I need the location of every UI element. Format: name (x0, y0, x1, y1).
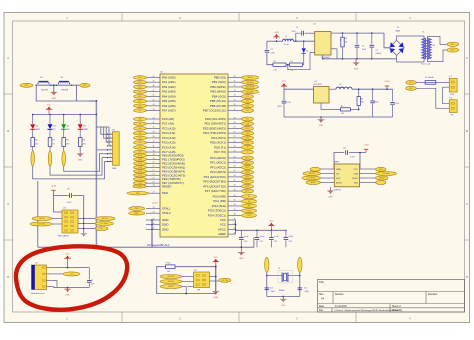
svg-text:21: 21 (234, 131, 236, 133)
svg-text:32: 32 (234, 185, 236, 187)
svg-text:SW-SS: SW-SS (379, 178, 384, 180)
svg-text:50: 50 (153, 76, 155, 78)
svg-text:31: 31 (153, 223, 155, 225)
net label oval below R5 (31, 151, 35, 166)
net label oval below R7 (48, 151, 52, 166)
svg-text:CSN: CSN (353, 173, 358, 175)
row2 input wire (284, 87, 314, 90)
svg-text:R5: R5 (341, 106, 343, 108)
svg-text:Revision: Revision (428, 293, 438, 296)
svg-text:PF6 (ADC6/TDO): PF6 (ADC6/TDO) (203, 184, 226, 188)
svg-text:38: 38 (234, 214, 236, 216)
svg-text:PA0 (AD0): PA0 (AD0) (162, 76, 176, 80)
crystal bottom rail wire (267, 295, 300, 297)
svg-text:1K0: 1K0 (66, 143, 69, 145)
svg-text:D13 MOSI: D13 MOSI (246, 87, 254, 89)
svg-text:AC2: AC2 (409, 87, 412, 90)
net label oval SW-SS enc (32, 217, 52, 221)
net label oval XTAL1 vert (298, 257, 302, 272)
nrf ground (330, 187, 332, 191)
svg-text:R1: R1 (274, 61, 276, 63)
nrf right pin stubs (360, 168, 376, 170)
svg-text:VCC: VCC (282, 81, 287, 83)
svg-text:PD1 (SDA/INT1): PD1 (SDA/INT1) (205, 122, 226, 126)
svg-text:P1: P1 (450, 76, 452, 78)
svg-text:+3.3V: +3.3V (51, 185, 57, 187)
svg-text:MISO: MISO (352, 178, 358, 180)
led loop wire 2 (50, 158, 113, 176)
svg-text:R9: R9 (83, 140, 85, 142)
svg-text:INT4: INT4 (379, 169, 383, 171)
svg-text:PB5 (OC1A): PB5 (OC1A) (210, 99, 226, 103)
enc left pin stubs (56, 218, 62, 220)
svg-text:NRF24: NRF24 (334, 190, 341, 192)
svg-text:D: D (466, 275, 468, 279)
svg-text:RFC3: RFC3 (278, 106, 282, 108)
svg-text:SW-PB: SW-PB (61, 90, 68, 92)
LED D6 PWR (79, 115, 81, 125)
net label oval nrf4 left (306, 181, 320, 185)
net label oval nrf IRQ right (376, 167, 386, 171)
power +5V for LEDs (48, 110, 50, 114)
svg-text:OC1: OC1 (246, 101, 249, 103)
svg-text:PB3 (MISO): PB3 (MISO) (210, 90, 226, 94)
capacitor C4 1000uF (371, 33, 373, 44)
svg-text:INT6: INT6 (25, 85, 29, 87)
svg-text:16: 16 (234, 104, 236, 106)
svg-text:26: 26 (234, 156, 236, 158)
net label oval SW-SCK isp (160, 280, 182, 284)
capacitor C14 22pF (265, 287, 270, 289)
svg-text:29: 29 (153, 212, 155, 214)
radio pin3 wire (54, 281, 58, 288)
svg-text:NRF1: NRF1 (334, 162, 340, 164)
vcc top rail wire (236, 229, 288, 231)
svg-text:T1: T1 (422, 32, 424, 34)
svg-text:PG4 (TOSC1): PG4 (TOSC1) (208, 213, 226, 217)
svg-text:36: 36 (234, 204, 236, 206)
svg-text:SW-SS: SW-SS (247, 77, 253, 79)
long gnd rail wire (38, 246, 254, 248)
capacitor C12 0.1uF (270, 230, 272, 237)
svg-text:20: 20 (153, 162, 155, 164)
svg-text:+3.3V: +3.3V (363, 144, 369, 146)
power +12V row1 (276, 37, 278, 39)
resistor R3 10k (342, 33, 344, 37)
svg-text:14: 14 (234, 95, 236, 97)
svg-text:PG3 (TOSC2): PG3 (TOSC2) (208, 209, 226, 213)
svg-text:PD3 (TXD1/INT3): PD3 (TXD1/INT3) (203, 131, 226, 135)
svg-text:GND: GND (354, 68, 359, 70)
net label oval D13 MOSI enc (30, 222, 52, 226)
ground decoupling rail (240, 247, 242, 252)
svg-text:4.7uF: 4.7uF (287, 102, 291, 104)
enc ground (80, 234, 87, 237)
svg-text:13.02.2018: 13.02.2018 (335, 306, 347, 308)
capacitor C10 0.1uF (240, 230, 242, 237)
svg-text:C10: C10 (244, 241, 247, 243)
svg-text:49: 49 (153, 81, 155, 83)
svg-text:+3.3V: +3.3V (384, 81, 390, 83)
diode bottom wire (303, 59, 305, 65)
connector P4 pins (109, 133, 113, 135)
svg-text:PG2 (ALE): PG2 (ALE) (212, 204, 226, 208)
mcu right net-label ovals wide SPI (242, 76, 259, 80)
svg-text:PB7 (OC2/OC1C): PB7 (OC2/OC1C) (203, 109, 226, 113)
capacitor C10b 10uF (372, 89, 374, 100)
mcu gnd bus wire (151, 220, 153, 247)
svg-text:39: 39 (153, 131, 155, 133)
ground below switches (51, 92, 58, 95)
net label oval SW-MOSI isp (160, 275, 182, 279)
svg-text:R7: R7 (52, 140, 54, 142)
regulator U1 MC34063 body (315, 32, 331, 56)
svg-text:C11: C11 (260, 241, 263, 243)
svg-text:C6: C6 (67, 189, 69, 191)
svg-text:VCC: VCC (65, 254, 70, 256)
svg-text:C2: C2 (271, 49, 273, 51)
mcu right net-label ovals PB rest (242, 94, 254, 98)
LED D2 ERR (32, 115, 34, 125)
power +5V row2 (283, 86, 285, 88)
svg-text:XCK1: XCK1 (246, 142, 250, 144)
svg-text:RESET: RESET (137, 186, 143, 188)
svg-text:VCC: VCC (269, 221, 274, 223)
svg-text:10: 10 (234, 76, 236, 78)
mcu left net-label ovals (134, 76, 147, 80)
fuse F1 (416, 81, 425, 83)
wire below resistor (63, 147, 65, 152)
svg-text:RadioReceiver: RadioReceiver (31, 292, 45, 295)
power +5V radio (67, 259, 69, 262)
svg-text:C4: C4 (376, 50, 378, 52)
frame zone ticks left (4, 93, 13, 95)
power +3V3 nrf (365, 149, 367, 152)
module NRF1 body (334, 164, 359, 187)
isp wire box (157, 267, 216, 294)
svg-text:SW-PB: SW-PB (41, 90, 48, 92)
svg-text:PC4 (A12): PC4 (A12) (162, 136, 176, 140)
svg-text:C3: C3 (362, 46, 364, 48)
net label oval XTAL2 vert (265, 257, 269, 272)
svg-text:PF7 (ADC7/TDI): PF7 (ADC7/TDI) (205, 189, 226, 193)
svg-text:28: 28 (153, 207, 155, 209)
svg-text:C1: C1 (296, 27, 298, 29)
svg-text:22: 22 (153, 170, 155, 172)
svg-text:OC0: OC0 (246, 96, 249, 98)
svg-text:PF1 (ADC1): PF1 (ADC1) (210, 161, 226, 165)
row1 left loop wire (266, 41, 268, 49)
p3 right wires (210, 276, 216, 278)
svg-text:D12 MISO: D12 MISO (100, 223, 109, 225)
svg-text:PD0 (SCL/INT0): PD0 (SCL/INT0) (205, 117, 226, 121)
svg-text:GND: GND (336, 169, 341, 171)
svg-text:TXD1: TXD1 (246, 133, 250, 135)
svg-text:PA6 (AD6): PA6 (AD6) (162, 104, 176, 108)
svg-text:RXD0: RXD0 (138, 155, 142, 157)
svg-text:41: 41 (153, 122, 155, 124)
svg-text:T2: T2 (247, 152, 249, 154)
capacitor C9 4.7uF (282, 100, 287, 102)
ground below R9 PWR led (79, 147, 81, 154)
svg-text:25: 25 (234, 150, 236, 152)
svg-text:PC6 (A14): PC6 (A14) (162, 145, 176, 149)
svg-text:4.7uF: 4.7uF (395, 103, 399, 105)
svg-text:B: B (466, 129, 468, 133)
svg-text:OC3: OC3 (246, 110, 249, 112)
net label oval AC2 right (406, 86, 417, 90)
svg-text:PF2 (ADC2): PF2 (ADC2) (210, 165, 226, 169)
svg-text:PA4 (AD4): PA4 (AD4) (162, 94, 176, 98)
diode D2 (303, 41, 305, 48)
svg-text:ATmega128(-AU): ATmega128(-AU) (147, 243, 169, 247)
svg-text:47: 47 (153, 90, 155, 92)
connector P2 body (449, 100, 457, 113)
svg-text:VCC: VCC (214, 257, 219, 259)
svg-text:R5: R5 (35, 140, 37, 142)
frame zone ticks top (121, 13, 123, 22)
LED D3 TX (49, 115, 51, 125)
svg-text:Y1: Y1 (278, 268, 280, 270)
svg-text:AC2: AC2 (451, 49, 454, 52)
svg-text:Date:: Date: (319, 305, 325, 308)
svg-text:SW-SCK: SW-SCK (309, 173, 316, 175)
power +5V isp (215, 262, 217, 265)
svg-text:7.5k: 7.5k (274, 70, 277, 72)
svg-text:36: 36 (153, 146, 155, 148)
row2 gnd (320, 117, 322, 120)
svg-text:21: 21 (153, 166, 155, 168)
capacitor C3 22uF (356, 33, 358, 44)
net label oval AC2 top (447, 48, 459, 52)
svg-text:42: 42 (153, 117, 155, 119)
row2 output rail (352, 88, 393, 90)
net label oval D13 MOSI nrf (302, 176, 320, 180)
svg-text:23: 23 (234, 141, 236, 143)
svg-text:PB2 (MOSI): PB2 (MOSI) (210, 85, 226, 89)
svg-text:27: 27 (234, 161, 236, 163)
svg-text:MOSI: MOSI (336, 182, 342, 184)
svg-text:19: 19 (153, 158, 155, 160)
svg-text:GND: GND (51, 98, 56, 100)
module U5 RadioReceiver body (35, 265, 47, 290)
svg-text:XTAL1: XTAL1 (134, 207, 139, 210)
row2 bottom rail (284, 116, 393, 118)
net label oval left of S1 (20, 83, 33, 87)
wire below resistor (79, 147, 81, 152)
mcu right net-label ovals PF (242, 156, 254, 160)
svg-text:F1 250mA: F1 250mA (425, 76, 434, 79)
svg-text:TOSC1: TOSC1 (247, 215, 252, 217)
row1 input rail wire (267, 40, 283, 42)
mc34063 right pin stubs (331, 32, 343, 34)
led gnd drop wire (37, 181, 39, 247)
svg-text:11: 11 (234, 81, 236, 83)
svg-text:22uF: 22uF (362, 49, 366, 51)
svg-text:35: 35 (153, 150, 155, 152)
svg-text:GND: GND (281, 305, 286, 307)
capacitor C2 12uF (265, 49, 270, 51)
svg-text:C:\Users\..\MyDocuments\C96-at: C:\Users\..\MyDocuments\C96-atmega128-II… (334, 309, 400, 312)
svg-text:T3: T3 (139, 179, 141, 181)
svg-text:R8: R8 (66, 140, 68, 142)
svg-text:25: 25 (153, 181, 155, 183)
svg-text:18: 18 (234, 117, 236, 119)
mcu right net-label ovals PG (242, 195, 257, 199)
svg-text:AC1: AC1 (451, 43, 454, 46)
row1 wire L1 to IC (294, 40, 315, 42)
svg-text:43: 43 (153, 109, 155, 111)
capacitor C15 22pF (298, 287, 303, 289)
svg-text:17: 17 (234, 109, 236, 111)
svg-text:INT7: INT7 (100, 228, 104, 230)
svg-text:L1: L1 (285, 36, 287, 38)
led rail wire (33, 114, 97, 116)
enc right riser wire (83, 196, 85, 234)
svg-text:28: 28 (234, 166, 236, 168)
crystal Y1 (278, 271, 293, 283)
svg-text:C7: C7 (91, 280, 93, 282)
svg-text:XTAL2: XTAL2 (134, 212, 139, 215)
net label oval nrf IRQ left (310, 167, 320, 171)
net label XTAL1 oval (129, 207, 145, 211)
row1 top output rail wire (343, 32, 385, 34)
transformer T1 (422, 38, 425, 59)
svg-text:C13: C13 (289, 241, 292, 243)
mcu U2 ATmega128 body (160, 74, 228, 237)
svg-text:PD4 (ICP1): PD4 (ICP1) (211, 136, 226, 140)
svg-text:PA1 (AD1): PA1 (AD1) (162, 80, 176, 84)
svg-text:26: 26 (153, 185, 155, 187)
svg-text:D12 MISO: D12 MISO (246, 91, 255, 93)
ground row1 (355, 59, 357, 63)
svg-text:PC2 (A10): PC2 (A10) (162, 126, 176, 130)
p1 to p2 link wire (443, 87, 450, 104)
svg-text:18: 18 (153, 154, 155, 156)
svg-text:IRQ: IRQ (354, 182, 358, 184)
svg-text:PWR: PWR (83, 129, 88, 131)
svg-text:C: C (7, 202, 9, 206)
svg-text:AREF: AREF (218, 232, 226, 236)
svg-text:C8: C8 (343, 148, 345, 150)
svg-text:D13 MOSI: D13 MOSI (307, 178, 315, 180)
svg-text:20: 20 (234, 127, 236, 129)
svg-text:PG0 (WR): PG0 (WR) (213, 195, 226, 199)
resistor R4 vertical (358, 89, 360, 96)
resistor R2 10k (290, 63, 303, 66)
svg-text:VCC: VCC (220, 218, 226, 222)
svg-text:Drawn By:: Drawn By: (392, 309, 403, 312)
svg-text:NCP1117: NCP1117 (314, 84, 323, 86)
svg-text:L2: L2 (339, 84, 341, 86)
p4 fan wires upper (96, 126, 109, 128)
ac2 to P2 wire (416, 88, 449, 108)
svg-text:PF4 (ADC4/TCK): PF4 (ADC4/TCK) (204, 175, 226, 179)
radio pin stubs (47, 267, 54, 269)
svg-text:32: 32 (153, 228, 155, 230)
svg-text:XTAL1: XTAL1 (162, 207, 171, 211)
mc34063 gnd stem wire (322, 55, 324, 59)
svg-text:44: 44 (153, 104, 155, 106)
mcu right net-label ovals PD (242, 117, 254, 121)
svg-text:RESET: RESET (168, 286, 174, 288)
net label oval INT enc (95, 227, 108, 231)
svg-text:120: 120 (341, 113, 344, 115)
svg-text:PB1 (SCK): PB1 (SCK) (212, 80, 226, 84)
title block (318, 280, 465, 313)
net label oval right of S2 (80, 83, 90, 87)
svg-text:PAN: PAN (112, 167, 117, 170)
net label oval RESET isp (160, 285, 182, 289)
svg-text:PC0 (A8): PC0 (A8) (162, 117, 174, 121)
capacitor C13 0.1uF (285, 230, 287, 237)
svg-text:PA5 (AD5): PA5 (AD5) (162, 99, 176, 103)
net label oval nrf CSN right (376, 176, 388, 180)
svg-text:SW-MOSI: SW-MOSI (167, 276, 175, 278)
svg-text:PB6 (OC1B): PB6 (OC1B) (210, 104, 226, 108)
svg-text:D13 MOSI: D13 MOSI (37, 224, 45, 226)
capacitor C6 (69, 193, 71, 198)
net label oval MISO isp right (219, 278, 231, 282)
svg-text:RXD1: RXD1 (245, 128, 249, 130)
svg-text:37: 37 (234, 209, 236, 211)
svg-text:12: 12 (234, 85, 236, 87)
svg-text:OC3B: OC3B (138, 171, 142, 173)
aref wire (235, 229, 237, 231)
svg-text:File:: File: (319, 310, 324, 312)
isp fan wires (182, 276, 194, 278)
ncp1117 pin stubs (329, 88, 336, 90)
svg-text:VCC: VCC (353, 169, 358, 171)
svg-text:12uF: 12uF (271, 53, 275, 55)
enc right pin stubs (78, 218, 95, 220)
isp ground (213, 292, 220, 295)
svg-text:D11 TXD: D11 TXD (222, 280, 229, 282)
resistor R5 (32, 129, 34, 137)
ncp bottom pin and R5 (321, 103, 340, 109)
svg-text:23: 23 (153, 174, 155, 176)
bus to p4 wire (96, 149, 112, 151)
svg-text:Number: Number (335, 293, 344, 296)
svg-text:D2: D2 (306, 50, 308, 52)
svg-text:10uF: 10uF (375, 102, 379, 104)
svg-text:PF0 (ADC0): PF0 (ADC0) (210, 156, 226, 160)
switch gnd stem wire (53, 85, 55, 92)
enc top wire with cap (53, 193, 55, 196)
switch S2 (56, 84, 58, 86)
r1 r2 mid tap wire (288, 53, 315, 70)
svg-text:TXD0: TXD0 (138, 159, 142, 161)
svg-text:RESET: RESET (311, 182, 316, 184)
svg-text:29: 29 (234, 170, 236, 172)
wire below resistor (49, 147, 51, 152)
svg-text:SW-SS: SW-SS (39, 218, 45, 220)
svg-text:40: 40 (153, 127, 155, 129)
svg-text:Size: Size (319, 293, 324, 296)
row1 bottom rail wire (336, 49, 338, 59)
svg-text:A: A (466, 56, 468, 60)
resistor R10 (166, 265, 176, 269)
svg-text:R3: R3 (345, 38, 347, 40)
radio ground (67, 288, 69, 290)
net label oval D12 MISO enc (95, 222, 113, 226)
svg-text:PA7 (AD7): PA7 (AD7) (162, 109, 176, 113)
svg-text:C12: C12 (274, 241, 277, 243)
svg-text:D12 MISO: D12 MISO (382, 173, 390, 175)
switch loop wire (36, 85, 88, 101)
svg-text:IC1: IC1 (315, 81, 318, 83)
svg-text:PF3 (ADC3): PF3 (ADC3) (210, 170, 226, 174)
